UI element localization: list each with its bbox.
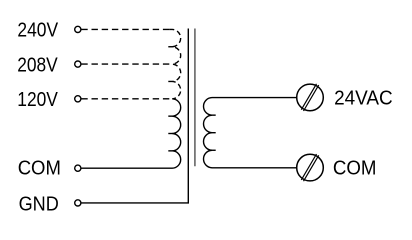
svg-text:208V: 208V [17,54,58,76]
wire 120V dashed tap [81,98,172,100]
transformer core right line [194,29,196,167]
screw terminal 24VAC [297,84,324,111]
terminal circle 120V [75,96,81,102]
winding junction tick (dashed section 2) [168,80,172,82]
wire 208V dashed tap [81,63,172,65]
svg-text:COM: COM [333,157,377,179]
secondary junction tick 1 [212,114,216,116]
terminal circle GND [75,200,81,206]
transformer T1 primary winding lower solid loops + COM wire [81,99,180,168]
svg-text:240V: 240V [17,20,58,42]
winding junction tick (solid 2) [168,133,172,135]
terminal circle 208V [75,61,81,67]
wire 240V dashed tap [81,28,169,30]
winding junction tick (solid 3) [168,150,172,152]
winding junction tick (solid 1) [168,115,172,117]
secondary junction tick 3 [212,149,216,151]
wire GND to core shield line [81,29,188,203]
svg-text:COM: COM [18,158,61,180]
svg-text:24VAC: 24VAC [334,87,393,109]
primary winding upper dashed semicircle loops [169,29,180,98]
screw terminal COM (secondary) [297,154,324,181]
terminal circle COM [75,165,81,171]
terminal circle 240V [75,26,81,32]
secondary junction tick 2 [212,132,216,134]
transformer T1 secondary winding + leads to screw terminals [204,98,297,168]
winding junction tick (dashed section 1) [168,46,172,48]
svg-text:120V: 120V [17,89,58,111]
svg-text:GND: GND [19,194,59,216]
